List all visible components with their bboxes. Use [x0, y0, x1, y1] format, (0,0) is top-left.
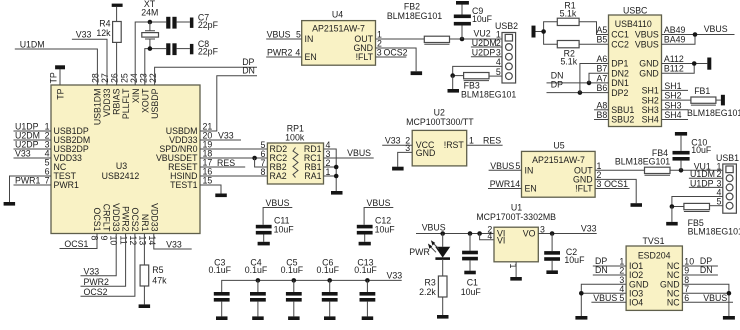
- wire OCS1 stub U5 pin3: [595, 188, 630, 190]
- svg-text:PWR1: PWR1: [15, 176, 41, 186]
- svg-text:PWR: PWR: [409, 247, 430, 257]
- svg-text:4: 4: [515, 179, 520, 189]
- net label SH1 stub: [662, 81, 689, 91]
- LED PWR indicator: [409, 234, 450, 259]
- svg-text:10uF: 10uF: [274, 224, 295, 234]
- svg-text:VBUS: VBUS: [347, 148, 371, 158]
- wire VBUS to U5 IN pin5: [489, 169, 522, 171]
- wire RP1 RA1 pin1 to ground rail: [324, 175, 337, 177]
- node V33 rail junction at C4: [256, 278, 261, 283]
- svg-text:PWR2: PWR2: [84, 277, 110, 287]
- wire C4 to ground: [257, 302, 259, 317]
- USBC pin designator A7: [597, 73, 608, 83]
- svg-text:12k: 12k: [96, 28, 111, 38]
- node junction U1 pin4 branch: [477, 231, 482, 236]
- USBC pin designator B112: [664, 64, 684, 74]
- svg-text:3: 3: [597, 179, 602, 189]
- svg-text:VBUS: VBUS: [266, 198, 290, 208]
- TP pin name inside (rotated): [56, 88, 66, 99]
- resistor R1 5.1k: [557, 1, 579, 26]
- net label VBUS at U5 IN: [490, 161, 514, 171]
- USBC pin designator A8: [597, 100, 608, 110]
- crystal XT 24M: [141, 0, 158, 49]
- ground above R4: [112, 4, 123, 7]
- svg-text:U2DM: U2DM: [472, 38, 497, 48]
- capacitor C12 10uF: [357, 216, 395, 235]
- svg-text:3: 3: [377, 48, 382, 58]
- svg-text:VBUS: VBUS: [703, 293, 727, 303]
- wire R5 to ground: [143, 286, 145, 304]
- U1 pin number 2: [487, 224, 492, 234]
- wire V33 to U3 pin14: [154, 234, 192, 250]
- ground at U3 TEST pin: [4, 202, 16, 206]
- svg-text:5.1k: 5.1k: [560, 56, 577, 66]
- wire U4 OUT pin1 to FB2: [376, 38, 425, 40]
- U3 top pin numbers 28-22 (rotated): [91, 73, 159, 83]
- svg-text:VBUS: VBUS: [593, 293, 617, 303]
- svg-text:10uF: 10uF: [564, 255, 585, 265]
- wire C10 to ground: [680, 136, 682, 151]
- svg-text:USBDP: USBDP: [150, 88, 160, 118]
- svg-text:FB2: FB2: [404, 2, 420, 12]
- ground at U1: [510, 277, 522, 281]
- svg-text:BLM18EG101: BLM18EG101: [387, 11, 442, 21]
- net label VBUS at C12: [367, 198, 391, 208]
- wire V33 decoupling rail: [222, 280, 402, 292]
- svg-text:SH4: SH4: [664, 110, 681, 120]
- wire V33 to U3 pin10: [81, 234, 117, 276]
- net label OCS2 at U3 pin12: [84, 287, 108, 297]
- wire PWR2 to U4 EN pin4: [266, 56, 302, 58]
- net label SH2 with wire to FB1: [662, 91, 691, 101]
- net label SH3 stub: [662, 100, 689, 110]
- capacitor C2 10uF: [544, 234, 585, 266]
- svg-text:SH3: SH3: [664, 100, 681, 110]
- ground at C11: [258, 242, 270, 246]
- wire U4 GND pin2 to ground: [376, 48, 417, 71]
- wire TVS1 GND pin8 to ground: [682, 284, 729, 316]
- U5 pin number 5: [515, 161, 520, 171]
- svg-text:U4: U4: [332, 9, 343, 19]
- node RP1 pin2 junction: [334, 165, 339, 170]
- U3 right pin names 21-15: [156, 126, 198, 190]
- svg-text:DP2: DP2: [611, 88, 628, 98]
- net label PWR1 at U3 pin (left): [15, 176, 41, 186]
- USBC pin designator AB49: [664, 25, 686, 35]
- svg-text:28: 28: [91, 73, 101, 83]
- svg-text:PWR2: PWR2: [267, 48, 293, 58]
- U2 pin number 2: [405, 136, 410, 146]
- wire rail to C13: [366, 280, 368, 292]
- svg-text:3: 3: [540, 224, 545, 234]
- node TVS1 right ground junction: [727, 291, 732, 296]
- ground at TVS1 right: [723, 316, 735, 320]
- svg-text:A5: A5: [597, 25, 608, 35]
- wire U1DM to U3 pin28: [15, 49, 98, 85]
- net label OCS2 at U4 !FLT: [384, 48, 408, 58]
- svg-text:V33: V33: [385, 136, 401, 146]
- IC TVS1 ESD204: [626, 236, 682, 310]
- wire U3 pin16 HSIND to RP1 RA2: [200, 175, 267, 177]
- wire net V33 to U3: [14, 157, 52, 159]
- svg-text:0.1uF: 0.1uF: [245, 265, 268, 275]
- wire DN to TVS1 pin2: [593, 274, 626, 276]
- net label VBUS at TVS1 pin6: [703, 293, 727, 303]
- svg-text:CRFLT: CRFLT: [101, 204, 111, 232]
- net label DP at TVS1 IO1: [595, 256, 607, 266]
- node V33 rail junction at C6: [327, 278, 332, 283]
- U3 top pin names 28-22 (rotated): [92, 88, 160, 125]
- svg-text:24M: 24M: [141, 8, 158, 18]
- svg-text:SH1: SH1: [664, 81, 681, 91]
- ground at C2: [546, 270, 558, 274]
- svg-text:B5: B5: [597, 35, 608, 45]
- resistor network RP1 100k: [267, 124, 323, 184]
- svg-text:TEST1: TEST1: [170, 180, 197, 190]
- USBC pin designator A6: [597, 54, 608, 64]
- U4 pin number 4: [295, 48, 300, 58]
- wire U1 VO pin3 to V33: [538, 233, 596, 235]
- net label OCS1 at U3 pin8: [64, 239, 88, 249]
- svg-text:SH4: SH4: [642, 115, 659, 125]
- svg-text:VBUS: VBUS: [267, 30, 291, 40]
- wire C2 to ground: [551, 261, 553, 271]
- wire C9 to ground: [461, 4, 463, 14]
- svg-text:PWR2: PWR2: [121, 206, 131, 232]
- wire OCS1 to U3 pin8: [60, 234, 98, 249]
- svg-text:DN: DN: [595, 265, 608, 275]
- wire C5 to ground: [293, 302, 295, 317]
- svg-text:SBU2: SBU2: [611, 115, 634, 125]
- net label VBUS at C11: [266, 198, 290, 208]
- node junction LED branch: [440, 231, 445, 236]
- svg-text:PLLFLT: PLLFLT: [121, 88, 131, 119]
- wire C7 to ground: [177, 21, 190, 23]
- wire C8 to ground: [177, 48, 190, 50]
- svg-text:V33: V33: [76, 30, 92, 40]
- wire C1 to ground: [469, 260, 471, 270]
- node crystal bottom junction: [148, 46, 153, 51]
- svg-text:5: 5: [619, 293, 624, 303]
- svg-text:U5: U5: [553, 140, 564, 150]
- ground at U4 GND: [411, 71, 423, 75]
- svg-text:OCS2: OCS2: [130, 208, 140, 232]
- svg-text:V33: V33: [84, 267, 100, 277]
- svg-text:AP2151AW-7: AP2151AW-7: [532, 155, 585, 165]
- svg-text:DP1: DP1: [611, 59, 628, 69]
- capacitor C11 10uF: [256, 216, 294, 235]
- wire R4 to U3 RBIAS pin26: [116, 42, 118, 85]
- TVS1 pin number 7: [684, 284, 689, 294]
- wire USB2 pin5 to FB3: [489, 75, 502, 77]
- wire U3 pin6 TEST to ground: [10, 176, 52, 202]
- wire PWR2 to U3 pin11: [81, 234, 126, 287]
- ground at C5: [288, 316, 300, 320]
- svg-text:BLM18EG101: BLM18EG101: [461, 90, 516, 100]
- IC U1 MCP1700T-3302MB: [476, 202, 556, 261]
- capacitor C13 0.1uF: [354, 257, 377, 301]
- svg-text:B8: B8: [597, 110, 608, 120]
- svg-text:TVS1: TVS1: [642, 236, 664, 246]
- wire rail to C4: [257, 280, 259, 292]
- node VBUS junction: [693, 32, 698, 37]
- wire RP1 RC1 pin3 to VBUS: [324, 157, 374, 159]
- wire U2DM stub USB2 pin2: [471, 46, 502, 48]
- svg-text:BLM18EG101: BLM18EG101: [688, 227, 740, 237]
- capacitor C10 10uF: [673, 137, 712, 160]
- svg-text:0.1uF: 0.1uF: [281, 265, 304, 275]
- svg-text:VBUS: VBUS: [422, 222, 446, 232]
- svg-text:XIN: XIN: [131, 89, 141, 104]
- U5 pin number 3: [597, 179, 602, 189]
- wire VBUS stub TVS1 pin6: [682, 301, 733, 303]
- svg-text:U1: U1: [511, 202, 522, 212]
- svg-text:3: 3: [405, 143, 410, 153]
- net label DN at TVS1 IO2: [595, 265, 608, 275]
- wire DP to TVS1 pin1: [593, 265, 626, 267]
- wire U3 pin13 NR1 to R5: [143, 234, 145, 266]
- svg-text:13: 13: [138, 236, 148, 246]
- svg-text:NC: NC: [667, 298, 680, 308]
- svg-text:R5: R5: [152, 265, 163, 275]
- resistor R2 5.1k: [557, 41, 579, 67]
- U3 bottom pin names 8-14 (rotated): [92, 203, 160, 232]
- wire LED to R3: [442, 259, 444, 276]
- net label VBUS at RP1: [347, 148, 371, 158]
- svg-text:47k: 47k: [152, 275, 167, 285]
- net label DP to USBC: [551, 80, 563, 90]
- svg-text:EN: EN: [305, 52, 317, 62]
- svg-text:CC2: CC2: [611, 39, 629, 49]
- ground at C7: [190, 18, 194, 28]
- node junction C2 branch: [550, 231, 555, 236]
- svg-text:11: 11: [118, 236, 128, 245]
- svg-text:10: 10: [109, 236, 119, 246]
- net label VBUS at TVS1 IO4: [593, 293, 617, 303]
- svg-text:EN: EN: [525, 184, 537, 194]
- USB2 pin number 1: [496, 29, 501, 39]
- USBC pin designator A5: [597, 25, 608, 35]
- svg-text:A112: A112: [664, 54, 684, 64]
- net label DN at TVS1 pin9: [700, 265, 713, 275]
- ferrite bead FB5 BLM18EG101: [684, 203, 740, 236]
- svg-text:SH3: SH3: [642, 105, 659, 115]
- wire SBU2 stub: [594, 119, 609, 121]
- wire TVS1 pin7 to ground rail: [682, 292, 729, 294]
- svg-text:USB1DM: USB1DM: [92, 88, 102, 125]
- svg-text:ESD204: ESD204: [638, 250, 671, 260]
- net label V33 decoupling rail: [387, 271, 403, 281]
- svg-text:VU2: VU2: [474, 28, 491, 38]
- svg-text:MCP1700T-3302MB: MCP1700T-3302MB: [476, 212, 556, 222]
- wire VBUS to U4 IN pin5: [266, 38, 302, 40]
- svg-text:26: 26: [110, 73, 120, 83]
- net label U1DM at USB1 pin2: [690, 169, 715, 179]
- svg-text:3: 3: [496, 48, 501, 58]
- ground at C6: [324, 316, 336, 320]
- resistor R3 2.2k: [419, 276, 447, 297]
- capacitor C4 0.1uF: [245, 257, 268, 301]
- U3 left pin names 1-7: [54, 126, 91, 190]
- wire R1/R2 common to ground: [536, 22, 558, 44]
- wire rail to C5: [293, 280, 295, 292]
- svg-text:V33: V33: [387, 271, 403, 281]
- net label V33 at U3 pin27: [76, 30, 92, 40]
- wire USB1 pin4 to ground node: [672, 197, 723, 207]
- svg-text:IN: IN: [525, 166, 534, 176]
- net label U2DP at U3 pin (left): [15, 140, 39, 150]
- U3 left pin numbers 1-7: [45, 122, 50, 186]
- capacitor C7 22pF: [166, 12, 218, 30]
- svg-text:22pF: 22pF: [198, 20, 219, 30]
- U5 pin number 2: [597, 170, 602, 180]
- wire R1 to USBC CC1: [579, 22, 608, 35]
- wire U3 USBDP pin22 to DP label: [155, 67, 257, 85]
- net label U2DM at USB2 pin2: [472, 38, 497, 48]
- USB2 pin number 5: [496, 67, 501, 77]
- ground at FB1: [721, 95, 725, 106]
- net label U1DP at U3 pin (left): [15, 122, 39, 132]
- wire VU1 node to C10: [680, 161, 682, 171]
- wire RES stub U3 pin17: [200, 166, 245, 168]
- ground at RP1: [331, 191, 343, 195]
- svg-text:GND: GND: [639, 59, 659, 69]
- svg-text:5.1k: 5.1k: [560, 9, 577, 19]
- U5 pin number 1: [597, 161, 602, 171]
- svg-text:RA2: RA2: [270, 171, 287, 181]
- svg-text:25: 25: [119, 73, 129, 83]
- net label VU2: [474, 28, 491, 38]
- net label PWR2 at U4 EN: [267, 48, 293, 58]
- U4 pin number 2: [377, 39, 382, 49]
- svg-text:VBUS: VBUS: [635, 30, 659, 40]
- USB1 pin number 2: [716, 169, 721, 179]
- TVS1 pin number 2: [619, 266, 624, 276]
- svg-text:DP: DP: [551, 80, 563, 90]
- RP1 right pin numbers: [326, 140, 331, 177]
- capacitor C1 10uF: [461, 234, 482, 297]
- TVS1 pin number 10: [684, 257, 694, 267]
- net label V33 at U3 pin20: [218, 131, 234, 141]
- wire U3 pin19 SPD/NR0 to RP1 RD2: [200, 148, 267, 150]
- node USB1 shield ground junction: [670, 204, 675, 209]
- wire U3 pin18 VBUSDET to RP1 RC2: [200, 157, 267, 159]
- wire U1DM stub USB1 pin2: [689, 177, 723, 179]
- U5 pin number 4: [515, 179, 520, 189]
- svg-text:DN2: DN2: [611, 68, 629, 78]
- net label U2DM at U3 pin (left): [15, 131, 40, 141]
- svg-text:SBU1: SBU1: [611, 105, 634, 115]
- svg-text:SH2: SH2: [642, 95, 659, 105]
- connector USBC USB4110: [609, 6, 662, 127]
- wire USBC GND pins to ground: [662, 64, 708, 74]
- wire DN junction to USBC DN2 pin B7: [589, 73, 609, 83]
- svg-text:VO: VO: [523, 229, 536, 239]
- USBC pin designator BA49: [664, 35, 686, 45]
- wire RP1 RD1 pin4 down to ground rail: [324, 149, 337, 191]
- svg-text:R4: R4: [99, 19, 110, 29]
- net label SH4 stub: [662, 110, 689, 120]
- node V33 rail junction at C5: [292, 278, 297, 283]
- wire VBUS to U1 VI pin2: [416, 233, 494, 235]
- wire FB1 to ground: [716, 99, 721, 101]
- svg-text:BA49: BA49: [664, 35, 686, 45]
- ground at C4: [252, 316, 264, 320]
- capacitor C3 0.1uF: [209, 257, 232, 301]
- ferrite bead FB3 BLM18EG101: [461, 73, 516, 100]
- svg-text:PWR1: PWR1: [54, 180, 80, 190]
- wire PWR1 to U5 EN pin4: [488, 188, 522, 190]
- IC U4 AP2151AW-7: [302, 9, 376, 65]
- U2 pin number 3: [405, 143, 410, 153]
- svg-text:DN: DN: [242, 65, 255, 75]
- USBC pin designator B7: [597, 64, 608, 74]
- USB1 pin number 5: [716, 197, 721, 207]
- ground at U3 TEST1: [215, 194, 227, 198]
- svg-text:DN1: DN1: [611, 78, 629, 88]
- wire U2DP stub USB2 pin3: [471, 56, 502, 58]
- net label RES at U2 !RST: [483, 136, 501, 146]
- wire VBUS to TVS1 pin5: [591, 301, 626, 303]
- svg-text:MCP100T300/TT: MCP100T300/TT: [406, 117, 474, 127]
- RP1 left pin names: [270, 144, 288, 181]
- wire USB2 pin4 to ground node: [453, 66, 502, 75]
- svg-text:10uF: 10uF: [375, 224, 396, 234]
- RP1 left pin numbers: [260, 140, 265, 177]
- test point TP pad: [55, 65, 65, 69]
- svg-text:PWR1: PWR1: [490, 179, 516, 189]
- svg-text:TP: TP: [56, 88, 66, 99]
- ferrite bead FB1 BLM18EG101: [687, 86, 740, 118]
- svg-text:0.1uF: 0.1uF: [354, 265, 377, 275]
- svg-text:15: 15: [203, 176, 213, 186]
- wire R2 to USBC CC2: [579, 43, 608, 45]
- svg-text:USB4110: USB4110: [615, 19, 652, 29]
- USB1 pin number 3: [716, 178, 721, 188]
- svg-text:RES: RES: [483, 136, 501, 146]
- svg-text:!FLT: !FLT: [356, 52, 374, 62]
- svg-text:27: 27: [100, 73, 110, 83]
- wire U3 USBDM pin21 to DN label: [200, 76, 257, 131]
- svg-text:!FLT: !FLT: [575, 184, 593, 194]
- svg-text:A7: A7: [597, 73, 608, 83]
- net label DP (from hub upstream): [242, 57, 254, 67]
- ground at USB2 shield: [448, 89, 460, 93]
- wire U5 GND pin2 to ground: [595, 179, 636, 203]
- svg-text:14: 14: [147, 236, 157, 246]
- wire FB5 to ground junction: [672, 206, 684, 208]
- capacitor C9 10uF: [454, 6, 493, 26]
- node junction C1 branch: [468, 231, 473, 236]
- connector USB1: [716, 153, 739, 213]
- USBC pin designator B8: [597, 110, 608, 120]
- svg-text:BLM18EG101: BLM18EG101: [615, 157, 670, 167]
- wire C12 to ground: [364, 235, 366, 242]
- svg-text:23: 23: [139, 73, 149, 83]
- svg-text:12: 12: [128, 236, 138, 246]
- svg-text:USB2412: USB2412: [102, 171, 140, 181]
- capacitor C8 22pF: [166, 39, 218, 57]
- svg-text:B7: B7: [597, 64, 608, 74]
- node USB2 shield ground junction: [450, 73, 455, 78]
- USB2 pin number 2: [496, 38, 501, 48]
- net label DN (from hub upstream): [242, 65, 255, 75]
- wire C3 to ground: [221, 302, 223, 317]
- svg-text:0.1uF: 0.1uF: [317, 265, 340, 275]
- ground at C3: [216, 316, 228, 320]
- net label V33 at U3 pin (left): [15, 149, 31, 159]
- wire U3 pin15 TEST1 to ground: [200, 185, 221, 194]
